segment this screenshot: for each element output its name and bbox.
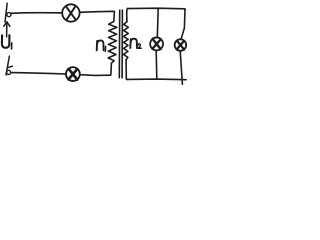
- label U1: [2, 35, 12, 49]
- wire top-left (terminal to lamp L1): [11, 12, 62, 15]
- terminal X1 (top input clamp): [5, 3, 11, 22]
- lamp L1 (top, circle with X): [62, 4, 79, 21]
- wire L1 to primary winding top: [80, 11, 115, 21]
- wire secondary winding top to top rail: [126, 9, 129, 22]
- lamp L2 (bottom, circle with bold X): [66, 67, 80, 81]
- voltage arrow (points up): [4, 22, 10, 37]
- wire L4 bottom to bottom rail (with overshoot): [180, 51, 182, 85]
- terminal X2 (bottom input clamp): [6, 56, 12, 75]
- secondary winding n2 (zigzag): [124, 22, 129, 60]
- primary winding n1 (zigzag): [108, 21, 117, 63]
- lamp L4 (right branch, circle with bold X): [175, 39, 187, 51]
- wire branch middle (top rail down to lamp L3): [156, 8, 159, 37]
- wire L3 bottom to bottom rail: [155, 50, 158, 79]
- label n1: [97, 40, 106, 51]
- secondary bottom rail: [127, 78, 186, 81]
- secondary top rail: [127, 8, 185, 9]
- wire branch right (top rail down to lamp L4): [181, 10, 185, 40]
- wire secondary winding bottom to bottom rail: [126, 60, 127, 80]
- lamp L3 (middle branch, circle with bold X): [150, 37, 163, 50]
- transformer core bar 1: [118, 10, 120, 77]
- label n2: [130, 39, 141, 49]
- wire L2 to bottom terminal: [11, 73, 66, 74]
- transformer core bar 2: [121, 10, 123, 78]
- wire primary winding bottom to lamp L2: [80, 63, 112, 75]
